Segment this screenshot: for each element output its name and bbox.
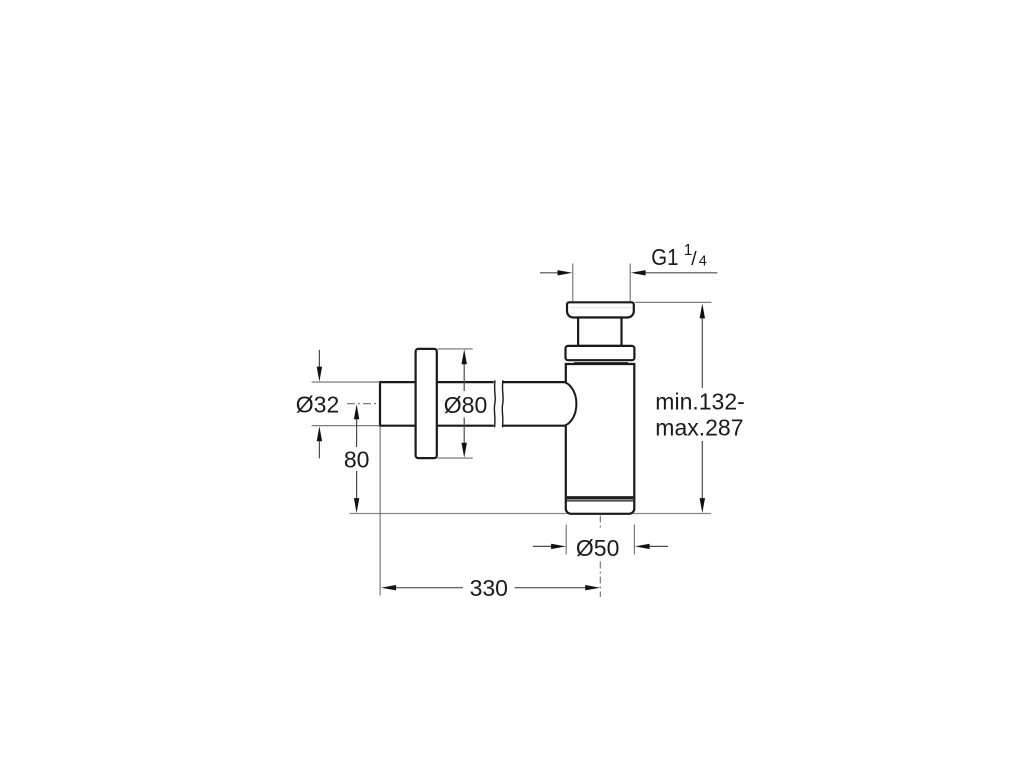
top reference level line — [635, 301, 711, 303]
svg-text:Ø80: Ø80 — [444, 392, 487, 418]
wall pipe (horizontal tailpiece, left segment) — [380, 382, 494, 426]
Ø80 dimension line and arrows — [462, 349, 467, 458]
label min.132-max.287 — [655, 388, 744, 440]
wall flange (rosette, side view) — [416, 349, 437, 458]
label G1 1/4 — [651, 242, 706, 270]
svg-text:80: 80 — [344, 447, 370, 473]
Ø50 extension lines — [566, 525, 634, 555]
min/max height dimension (vertical) — [700, 303, 705, 513]
baseline (installation wall/floor reference) — [350, 513, 712, 515]
svg-text:Ø32: Ø32 — [296, 391, 339, 417]
G1 1/4 dimension extension lines — [573, 264, 630, 302]
flange-body joint line — [574, 362, 628, 364]
pipe end bulge inside trap body — [565, 382, 576, 425]
pipe break symbol (two wavy lines) — [494, 380, 503, 427]
trap body (cylinder cup) — [566, 364, 635, 514]
svg-text:Ø50: Ø50 — [576, 535, 619, 561]
svg-text:330: 330 — [470, 575, 508, 601]
330 dimension left extension line — [379, 427, 381, 596]
top nut flange faint facet line — [570, 307, 631, 309]
Ø32 extension tails — [312, 382, 380, 426]
80 dimension (vertical, pipe axis to baseline) — [354, 404, 359, 513]
svg-text:G1: G1 — [651, 244, 678, 270]
upper body flange — [566, 346, 635, 360]
330 dimension line and arrows — [381, 585, 600, 590]
Ø50 arrows (outside) — [533, 544, 668, 549]
top nut flange — [567, 302, 634, 317]
svg-text:4: 4 — [699, 253, 707, 269]
svg-text:/: / — [691, 248, 697, 270]
Ø32 arrows (outside, pointing to pipe edges) — [317, 350, 322, 459]
svg-text:max.287: max.287 — [655, 414, 743, 440]
cup cap top line — [566, 500, 635, 502]
thread neck — [578, 318, 621, 346]
svg-text:min.132-: min.132- — [655, 388, 744, 414]
Ø80 extension tails — [438, 349, 473, 458]
cup joint thick line — [567, 496, 633, 499]
G1 1/4 dimension line and arrows — [540, 270, 717, 275]
wall pipe (horizontal tailpiece, right segment) — [503, 382, 565, 426]
pipe axis centerline (dash-dot) — [347, 403, 378, 405]
cup vertical centerline (dash-dot) — [599, 516, 601, 598]
